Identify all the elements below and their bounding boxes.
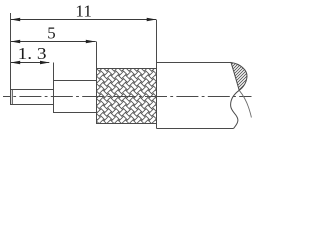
center conductor	[11, 90, 54, 105]
break lens outline	[231, 63, 247, 91]
extension line braid face	[96, 42, 98, 69]
svg-text:11: 11	[75, 2, 92, 21]
extension line dielectric face	[53, 63, 55, 81]
break S-curve	[231, 90, 240, 128]
dimension line 11	[11, 18, 157, 21]
break lens hatch	[59, 58, 320, 93]
extension line jacket face	[156, 20, 158, 63]
jacket face	[156, 63, 158, 129]
break right flick	[239, 90, 251, 117]
dielectric	[54, 81, 97, 113]
svg-text:5: 5	[47, 24, 55, 43]
braid (woven shield)	[60, 26, 197, 161]
jacket bottom edge	[157, 128, 234, 130]
svg-text:1. 3: 1. 3	[18, 44, 47, 63]
centerline	[3, 96, 252, 98]
jacket top edge	[157, 62, 232, 64]
dimension line 5	[11, 40, 96, 43]
extension line left (conductor tip)	[10, 13, 12, 89]
dimension line 1.3	[11, 61, 50, 64]
